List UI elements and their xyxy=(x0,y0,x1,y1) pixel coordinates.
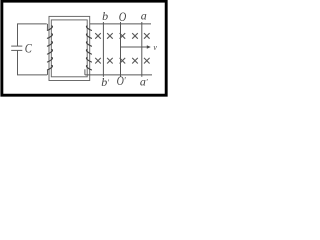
svg-text:b′: b′ xyxy=(101,75,109,89)
svg-text:O: O xyxy=(119,10,127,24)
svg-text:C: C xyxy=(25,42,32,56)
svg-text:O′: O′ xyxy=(117,75,127,88)
svg-text:a′: a′ xyxy=(140,75,148,89)
svg-text:b: b xyxy=(102,9,108,23)
svg-text:a: a xyxy=(141,9,147,23)
svg-text:v: v xyxy=(153,43,157,52)
